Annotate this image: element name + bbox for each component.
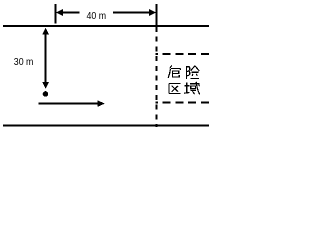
bottom ground line <box>3 125 209 127</box>
character 区 (qu) of danger label <box>169 84 181 94</box>
dimension tick right <box>156 4 158 26</box>
40 m dimension left arrow <box>56 9 80 16</box>
svg-text:40 m: 40 m <box>87 10 107 22</box>
30 m dimension line <box>45 30 47 86</box>
character 危 (wei) of danger label <box>168 65 180 78</box>
30 m down arrowhead <box>42 82 49 89</box>
dashed vertical boundary of danger zone <box>156 27 158 127</box>
dashed top edge of danger zone <box>156 53 210 55</box>
dashed bottom edge of danger zone <box>156 101 210 103</box>
velocity arrow <box>39 100 105 107</box>
svg-text:30 m: 30 m <box>14 56 34 68</box>
top platform line <box>3 25 209 27</box>
30 m up arrowhead <box>42 28 49 35</box>
character 险 (xian) of danger label <box>187 66 200 79</box>
character 域 (yu) of danger label <box>184 82 199 95</box>
ball <box>43 91 49 97</box>
dimension tick left <box>55 4 57 24</box>
40 m dimension right arrow <box>113 9 156 16</box>
